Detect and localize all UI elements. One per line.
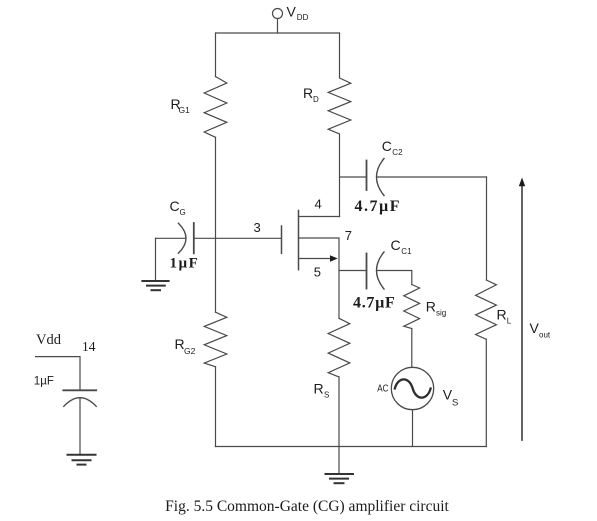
svg-text:sig: sig [436, 309, 446, 318]
svg-text:out: out [539, 331, 551, 340]
svg-text:4.7µF: 4.7µF [355, 198, 402, 215]
svg-text:Vdd: Vdd [36, 332, 62, 348]
svg-text:C: C [382, 138, 392, 154]
svg-text:V: V [530, 320, 540, 336]
svg-text:S: S [324, 391, 329, 400]
svg-text:C: C [170, 198, 180, 214]
svg-text:S: S [452, 398, 458, 409]
svg-text:4: 4 [315, 197, 322, 212]
svg-text:C1: C1 [401, 247, 412, 256]
svg-text:Fig. 5.5 Common-Gate (CG) ampl: Fig. 5.5 Common-Gate (CG) amplifier circ… [165, 498, 449, 515]
svg-text:4.7µF: 4.7µF [353, 295, 396, 312]
svg-text:R: R [426, 299, 436, 315]
svg-text:7: 7 [345, 228, 352, 243]
svg-text:AC: AC [377, 382, 389, 394]
svg-text:R: R [314, 381, 324, 397]
svg-text:G: G [180, 208, 186, 217]
svg-text:1µF: 1µF [170, 256, 200, 272]
svg-text:R: R [497, 307, 507, 323]
svg-text:DD: DD [297, 13, 309, 22]
svg-text:C2: C2 [392, 148, 403, 157]
svg-text:G1: G1 [179, 105, 191, 115]
svg-text:G2: G2 [184, 346, 196, 356]
svg-text:3: 3 [254, 220, 261, 235]
svg-text:L: L [507, 317, 512, 326]
svg-text:1µF: 1µF [34, 376, 54, 388]
svg-text:5: 5 [314, 265, 321, 280]
svg-text:V: V [287, 4, 297, 20]
svg-text:R: R [303, 85, 313, 101]
svg-text:14: 14 [82, 339, 96, 354]
svg-text:D: D [313, 95, 319, 104]
svg-text:C: C [391, 237, 401, 253]
